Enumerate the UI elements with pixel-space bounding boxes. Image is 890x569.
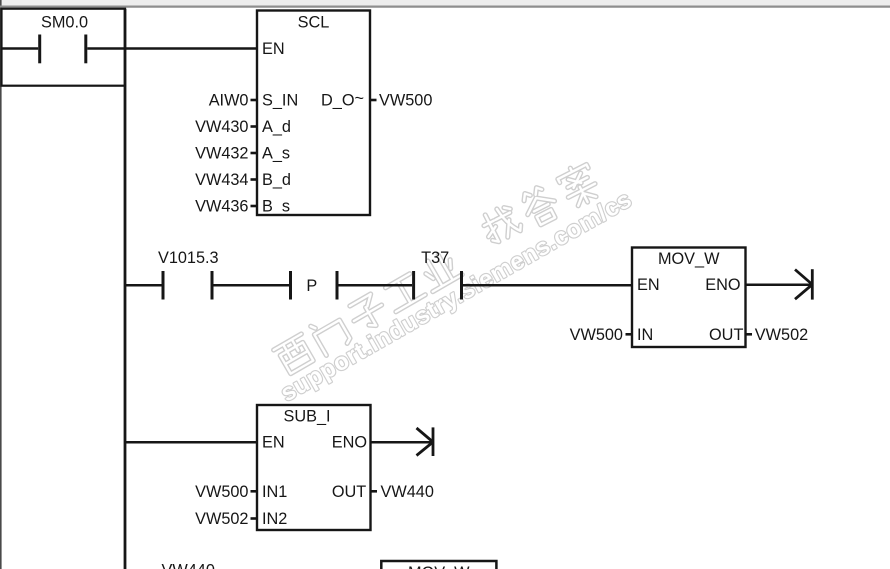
- network separator line: [0, 5, 890, 7]
- svg-text:T37: T37: [421, 249, 449, 267]
- pin tick OUT: [746, 333, 753, 336]
- svg-text:VW434: VW434: [195, 171, 248, 189]
- svg-text:MOV_W: MOV_W: [408, 564, 470, 569]
- svg-text:SUB_I: SUB_I: [283, 408, 330, 426]
- svg-text:B_s: B_s: [262, 198, 290, 216]
- box MOV_W: [632, 248, 746, 348]
- branch rail: [124, 9, 127, 569]
- pin tick D_O out: [370, 99, 377, 102]
- wire: [339, 284, 413, 287]
- svg-text:VW500: VW500: [195, 483, 248, 501]
- svg-text:A_s: A_s: [262, 145, 290, 163]
- wire to MOV_W: [463, 284, 632, 287]
- contact P bar2: [336, 271, 339, 300]
- svg-text:VW500: VW500: [379, 92, 432, 110]
- left window border: [0, 0, 2, 569]
- wire ENO out: [746, 283, 812, 286]
- svg-text:OUT: OUT: [332, 483, 366, 501]
- svg-text:VW440: VW440: [381, 483, 434, 501]
- wire: [214, 284, 290, 287]
- wire rung1 left: [2, 47, 39, 50]
- selection box around SM0.0: [2, 9, 126, 86]
- wire rung2: [125, 284, 162, 287]
- pin tick B_s: [251, 205, 258, 208]
- svg-text:VW432: VW432: [195, 145, 248, 163]
- watermark url text: [276, 186, 636, 407]
- pin tick OUT rung3: [371, 490, 378, 493]
- svg-text:D_O~: D_O~: [321, 90, 364, 110]
- svg-text:SM0.0: SM0.0: [41, 14, 88, 32]
- wire ENO out rung3: [371, 441, 432, 444]
- svg-text:IN2: IN2: [262, 510, 287, 528]
- contact T37 bar1: [412, 271, 415, 300]
- contact V1015.3 bar1: [162, 271, 165, 300]
- watermark chinese run: 西门子工业: [273, 248, 464, 377]
- partial box rung4: [381, 561, 496, 569]
- pin tick S_IN: [251, 99, 258, 102]
- contact SM0.0 bar1: [38, 35, 41, 64]
- svg-text:A_d: A_d: [262, 118, 291, 136]
- svg-text:V1015.3: V1015.3: [158, 249, 219, 267]
- contact T37 bar2: [460, 271, 463, 300]
- pin tick IN: [626, 333, 633, 336]
- svg-text:ENO: ENO: [332, 434, 367, 452]
- arrow rung3: [417, 427, 434, 456]
- wire rung1 right: [87, 47, 257, 50]
- svg-text:VW436: VW436: [195, 198, 248, 216]
- arrow rung2: [795, 269, 812, 299]
- svg-text:VW440: VW440: [162, 562, 215, 569]
- svg-text:IN1: IN1: [262, 483, 287, 501]
- svg-text:ENO: ENO: [705, 276, 740, 294]
- svg-text:IN: IN: [637, 326, 653, 344]
- svg-text:P: P: [306, 277, 317, 295]
- svg-text:EN: EN: [262, 40, 285, 58]
- top toolbar band: [0, 0, 890, 6]
- box SCL: [257, 11, 370, 216]
- pin tick A_s: [251, 152, 258, 155]
- contact SM0.0 bar2: [84, 35, 87, 64]
- svg-text:VW502: VW502: [755, 326, 808, 344]
- pin tick IN2: [251, 517, 258, 520]
- box SUB_I: [257, 405, 371, 530]
- svg-text:OUT: OUT: [709, 326, 743, 344]
- svg-text:EN: EN: [262, 434, 285, 452]
- pin tick IN1: [251, 490, 258, 493]
- svg-text:B_d: B_d: [262, 171, 291, 189]
- svg-text:AIW0: AIW0: [209, 92, 249, 110]
- wire rung3: [125, 441, 257, 444]
- contact V1015.3 bar2: [211, 271, 214, 300]
- svg-text:MOV_W: MOV_W: [658, 250, 720, 268]
- svg-text:SCL: SCL: [298, 14, 330, 32]
- svg-text:VW500: VW500: [570, 326, 623, 344]
- pin tick B_d: [251, 178, 258, 181]
- watermark chinese run: 找答案: [478, 161, 602, 249]
- svg-text:VW502: VW502: [195, 510, 248, 528]
- pin tick A_d: [251, 125, 258, 128]
- svg-text:VW430: VW430: [195, 118, 248, 136]
- svg-text:S_IN: S_IN: [262, 92, 298, 110]
- svg-text:EN: EN: [637, 276, 660, 294]
- contact P bar1: [289, 271, 292, 300]
